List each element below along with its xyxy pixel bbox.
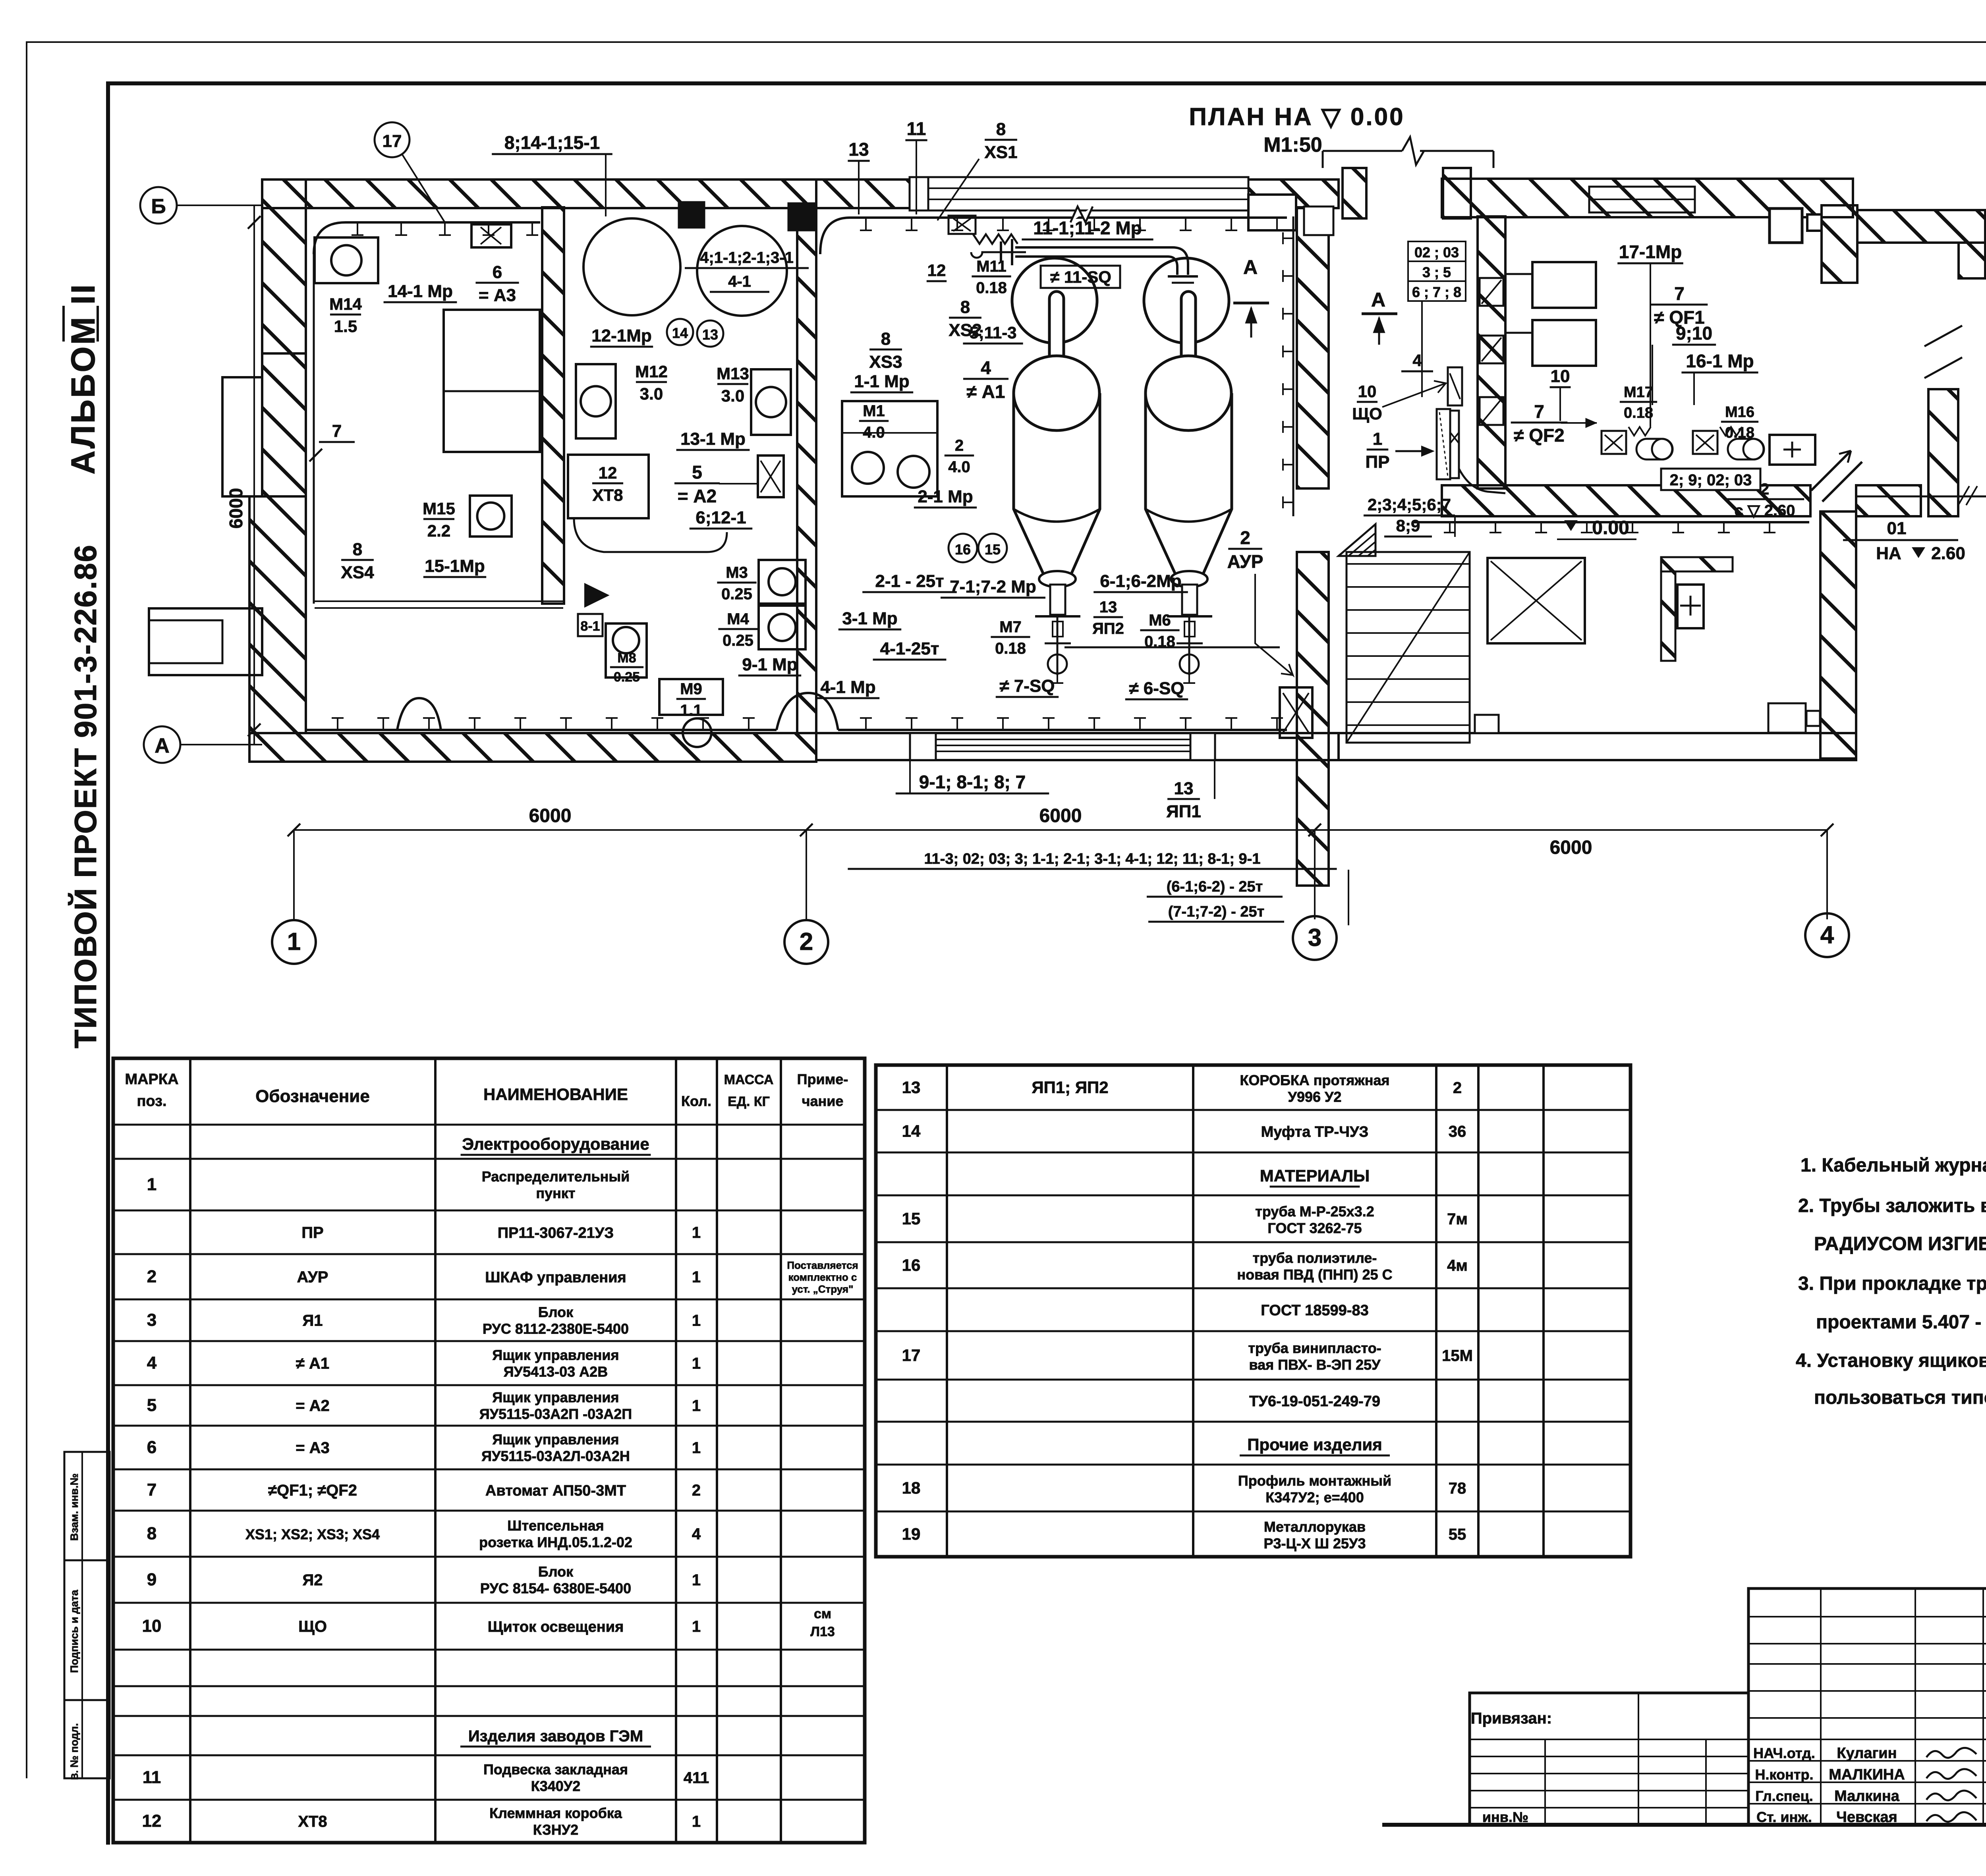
svg-text:4-1: 4-1 xyxy=(728,273,751,290)
svg-text:2: 2 xyxy=(955,437,964,454)
svg-text:16: 16 xyxy=(955,541,971,558)
svg-text:Профиль монтажный: Профиль монтажный xyxy=(1238,1473,1391,1489)
svg-text:3.0: 3.0 xyxy=(640,384,663,403)
svg-text:7: 7 xyxy=(1674,283,1685,304)
svg-text:№ подл.: № подл. xyxy=(68,1723,80,1768)
tray top room1 xyxy=(314,222,540,254)
svg-text:17: 17 xyxy=(383,131,402,151)
svg-text:Блок: Блок xyxy=(538,1304,574,1320)
svg-text:Н.контр.: Н.контр. xyxy=(1755,1766,1814,1783)
svg-text:6: 6 xyxy=(493,262,502,282)
svg-text:≠ 7-SQ: ≠ 7-SQ xyxy=(999,676,1055,696)
svg-text:ШКАФ управления: ШКАФ управления xyxy=(485,1269,626,1286)
svg-text:Взам. инв.№: Взам. инв.№ xyxy=(68,1473,80,1541)
svg-text:Блок: Блок xyxy=(538,1563,574,1580)
svg-text:= А2: = А2 xyxy=(296,1397,330,1415)
silo 1 top circle xyxy=(1012,258,1097,343)
svg-text:7: 7 xyxy=(1534,401,1544,422)
bottom wall rooms 1-2 xyxy=(249,733,816,762)
svg-text:ПР11-3067-21УЗ: ПР11-3067-21УЗ xyxy=(498,1225,614,1241)
top wall NE lower band xyxy=(1857,210,1985,243)
svg-text:МАССА: МАССА xyxy=(724,1072,774,1087)
svg-text:(7-1;7-2) - 25т: (7-1;7-2) - 25т xyxy=(1168,903,1264,920)
svg-text:ПР: ПР xyxy=(1366,452,1390,472)
svg-text:ХТ8: ХТ8 xyxy=(592,486,623,504)
pump M1 group xyxy=(842,401,937,496)
svg-text:М17: М17 xyxy=(1624,384,1653,401)
motor M16 unit xyxy=(1693,431,1717,454)
silo 1 outlet ring xyxy=(1039,571,1076,587)
svg-text:0.00: 0.00 xyxy=(1592,517,1629,538)
svg-text:ЯП1; ЯП2: ЯП1; ЯП2 xyxy=(1032,1078,1108,1097)
svg-text:15: 15 xyxy=(985,541,1001,558)
left dimension 6000 vertical xyxy=(253,205,255,745)
svg-text:8;14-1;15-1: 8;14-1;15-1 xyxy=(504,132,600,153)
svg-text:4-1-25т: 4-1-25т xyxy=(880,639,939,658)
svg-text:с ▽ 2.60: с ▽ 2.60 xyxy=(1734,502,1795,519)
svg-text:15М: 15М xyxy=(1442,1347,1473,1365)
svg-text:М3: М3 xyxy=(726,564,748,581)
valve connection line xyxy=(1064,647,1280,648)
svg-text:4м: 4м xyxy=(1447,1257,1468,1274)
svg-text:Кулагин: Кулагин xyxy=(1837,1745,1897,1762)
svg-text:9-1 Мр: 9-1 Мр xyxy=(742,655,797,674)
svg-text:пользоваться типовым проект: пользоваться типовым проектом 5.407-55. xyxy=(1814,1387,1986,1408)
svg-text:Гл.спец.: Гл.спец. xyxy=(1755,1788,1813,1804)
svg-text:10: 10 xyxy=(142,1616,162,1636)
svg-text:17: 17 xyxy=(902,1346,921,1365)
box ShchO xyxy=(1448,367,1462,405)
svg-text:Муфта ТР-ЧУЗ: Муфта ТР-ЧУЗ xyxy=(1261,1124,1369,1141)
svg-text:2: 2 xyxy=(692,1482,701,1499)
panel PR xyxy=(1437,409,1450,479)
svg-text:2: 2 xyxy=(800,928,813,955)
svg-text:≠ 6-SQ: ≠ 6-SQ xyxy=(1129,679,1184,698)
svg-text:10: 10 xyxy=(1551,367,1570,386)
window channel right room xyxy=(1589,187,1695,212)
svg-text:9: 9 xyxy=(147,1570,156,1589)
cabinet AUR xyxy=(1280,687,1312,738)
circle 17 leader xyxy=(375,122,410,157)
riser tray ticks xyxy=(1283,232,1293,244)
svg-text:Л13: Л13 xyxy=(810,1624,835,1639)
svg-text:Чевская: Чевская xyxy=(1836,1809,1897,1826)
svg-text:М11: М11 xyxy=(976,258,1007,275)
svg-text:1.5: 1.5 xyxy=(334,317,357,336)
svg-text:см: см xyxy=(814,1606,831,1621)
tray left room1 down xyxy=(313,254,315,604)
svg-text:13: 13 xyxy=(848,139,869,160)
pier block axis3 top xyxy=(1248,195,1296,230)
small boxes near east wall xyxy=(1768,703,1806,733)
svg-text:7: 7 xyxy=(147,1480,156,1500)
svg-text:М6: М6 xyxy=(1149,612,1171,629)
grid circle 1 xyxy=(272,920,316,964)
motor M3 box xyxy=(759,560,806,604)
svg-text:труба М-Р-25х3.2: труба М-Р-25х3.2 xyxy=(1255,1203,1374,1220)
svg-text:НАЧ.отд.: НАЧ.отд. xyxy=(1753,1745,1815,1761)
svg-text:2: 2 xyxy=(1240,527,1250,548)
svg-text:пункт: пункт xyxy=(536,1185,575,1201)
svg-text:3 ; 5: 3 ; 5 xyxy=(1422,264,1451,280)
svg-text:РУС 8154- 6380Е-5400: РУС 8154- 6380Е-5400 xyxy=(480,1580,631,1596)
svg-text:Подвеска закладная: Подвеска закладная xyxy=(483,1761,628,1778)
svg-text:ТУ6-19-051-249-79: ТУ6-19-051-249-79 xyxy=(1249,1393,1380,1410)
circle 14 xyxy=(667,319,693,345)
svg-text:поз.: поз. xyxy=(137,1093,166,1110)
svg-text:МАРКА: МАРКА xyxy=(125,1071,178,1088)
svg-text:= А2: = А2 xyxy=(678,486,717,506)
svg-text:розетка ИНД.05.1.2-02: розетка ИНД.05.1.2-02 xyxy=(479,1534,632,1550)
svg-text:Металлорукав: Металлорукав xyxy=(1264,1519,1366,1535)
svg-text:2: 2 xyxy=(1453,1079,1462,1097)
motor M4 box xyxy=(759,606,806,649)
terminal box XT8 xyxy=(568,455,649,518)
svg-text:2; 9; 02; 03: 2; 9; 02; 03 xyxy=(1670,471,1752,489)
section mark A left xyxy=(1233,302,1269,305)
left wall upper xyxy=(262,353,306,496)
svg-text:Щиток освещения: Щиток освещения xyxy=(488,1619,624,1635)
svg-text:ЯП1: ЯП1 xyxy=(1166,802,1201,821)
grid circle 4 xyxy=(1805,913,1849,957)
svg-text:ЯУ5115-03А2Л-03А2Н: ЯУ5115-03А2Л-03А2Н xyxy=(481,1448,630,1464)
svg-text:11-3; 02; 03; 3; 1-1; 2-1; 3-1: 11-3; 02; 03; 3; 1-1; 2-1; 3-1; 4-1; 12;… xyxy=(924,851,1261,867)
silo 2 valve train xyxy=(1188,616,1190,675)
svg-text:комплектно с: комплектно с xyxy=(788,1271,857,1283)
svg-text:12: 12 xyxy=(142,1811,162,1831)
svg-text:ПР: ПР xyxy=(301,1224,323,1241)
svg-text:1: 1 xyxy=(147,1175,156,1194)
svg-text:К347У2; е=400: К347У2; е=400 xyxy=(1265,1489,1364,1505)
svg-text:19: 19 xyxy=(902,1525,921,1543)
svg-text:4;1-1;2-1;3-1: 4;1-1;2-1;3-1 xyxy=(700,249,794,266)
title block extension xyxy=(1470,1693,1748,1825)
svg-text:6-1;6-2Мр: 6-1;6-2Мр xyxy=(1100,571,1181,591)
svg-text:М1: М1 xyxy=(863,402,885,420)
svg-text:16-1 Мр: 16-1 Мр xyxy=(1686,351,1754,371)
svg-text:1: 1 xyxy=(692,1268,701,1286)
svg-text:Я1: Я1 xyxy=(303,1312,323,1330)
svg-text:12: 12 xyxy=(927,261,946,280)
tray right room bottom xyxy=(1414,521,1809,523)
svg-text:12: 12 xyxy=(599,463,617,482)
riser tray along axis3 wall xyxy=(1292,216,1294,516)
level mark 0.00 xyxy=(1564,520,1578,531)
svg-text:Б: Б xyxy=(151,195,166,218)
step pier NE xyxy=(1822,205,1857,283)
svg-text:Прочие изделия: Прочие изделия xyxy=(1247,1435,1382,1454)
top wall right room xyxy=(1442,179,1853,217)
motor M9 xyxy=(659,679,723,715)
svg-text:НА: НА xyxy=(1876,544,1901,563)
svg-text:≠QF1; ≠QF2: ≠QF1; ≠QF2 xyxy=(268,1482,357,1499)
svg-text:МАЛКИНА: МАЛКИНА xyxy=(1829,1766,1905,1783)
specification table 1 xyxy=(113,1058,865,1843)
svg-text:В.: В. xyxy=(70,1770,80,1780)
left wall niche bump xyxy=(222,377,262,496)
right room west wall xyxy=(1478,216,1505,488)
svg-text:4: 4 xyxy=(1820,921,1834,949)
svg-text:5;11-3: 5;11-3 xyxy=(969,323,1016,342)
svg-text:1: 1 xyxy=(692,1439,701,1457)
svg-text:2-1 - 25т: 2-1 - 25т xyxy=(875,571,944,591)
svg-text:6000: 6000 xyxy=(226,488,246,529)
floor channel in bottom wall xyxy=(936,739,1190,740)
label 2 9 02 03 box xyxy=(1661,469,1760,490)
svg-text:= А3: = А3 xyxy=(296,1439,330,1457)
svg-text:17-1Мр: 17-1Мр xyxy=(1619,241,1682,262)
svg-text:4: 4 xyxy=(692,1525,701,1543)
axis B circle xyxy=(140,187,177,224)
circle 13 xyxy=(697,320,723,347)
svg-text:4. Установку ящиков с ру: 4. Установку ящиков с рубильником и АППА… xyxy=(1796,1350,1986,1371)
svg-text:2;3;4;5;6;7: 2;3;4;5;6;7 xyxy=(1368,495,1451,514)
svg-text:18: 18 xyxy=(902,1478,921,1497)
svg-text:0.18: 0.18 xyxy=(976,279,1007,297)
svg-text:2.60: 2.60 xyxy=(1931,544,1965,563)
svg-text:новая ПВД (ПНП) 25 С: новая ПВД (ПНП) 25 С xyxy=(1237,1266,1392,1283)
signatures xyxy=(1926,1748,1976,1758)
pipe between silos xyxy=(1015,257,1177,275)
svg-text:Я2: Я2 xyxy=(303,1571,323,1589)
grid circle 3 xyxy=(1293,916,1337,960)
svg-text:≠ QF2: ≠ QF2 xyxy=(1514,425,1565,446)
svg-text:Штепсельная: Штепсельная xyxy=(507,1517,604,1534)
svg-text:8: 8 xyxy=(353,540,362,559)
tank T2 xyxy=(697,226,787,316)
svg-text:= А3: = А3 xyxy=(479,286,516,305)
silo 2 top circle xyxy=(1144,258,1229,343)
svg-text:Кол.: Кол. xyxy=(681,1093,711,1109)
svg-text:РУС 8112-2380Е-5400: РУС 8112-2380Е-5400 xyxy=(483,1321,629,1337)
left wall lower xyxy=(249,496,306,733)
svg-text:Малкина: Малкина xyxy=(1834,1788,1900,1805)
svg-text:труба полиэтиле-: труба полиэтиле- xyxy=(1253,1250,1377,1266)
svg-text:1: 1 xyxy=(1373,429,1382,449)
svg-text:14-1 Мр: 14-1 Мр xyxy=(388,282,453,301)
svg-text:ГОСТ 18599-83: ГОСТ 18599-83 xyxy=(1261,1302,1368,1319)
wall pier left top corner xyxy=(262,179,306,353)
svg-text:1: 1 xyxy=(692,1397,701,1415)
svg-text:3: 3 xyxy=(1308,924,1321,952)
svg-text:ЯУ5115-03А2П -03А2П: ЯУ5115-03А2П -03А2П xyxy=(479,1406,632,1422)
svg-text:13: 13 xyxy=(1099,598,1117,616)
svg-text:6 ; 7 ; 8: 6 ; 7 ; 8 xyxy=(1412,284,1461,300)
svg-text:0.18: 0.18 xyxy=(1725,425,1754,441)
svg-text:36: 36 xyxy=(1449,1123,1466,1141)
motor M8 xyxy=(606,623,647,677)
floor trench rooms 1-2 xyxy=(315,600,563,602)
svg-text:М4: М4 xyxy=(727,610,749,628)
building right wall xyxy=(1928,389,1958,516)
interior wall W3 axis3 xyxy=(1297,207,1329,488)
svg-text:01: 01 xyxy=(1887,519,1907,538)
svg-text:Клеммная коробка: Клеммная коробка xyxy=(489,1805,622,1821)
svg-text:ХS1; ХS2; ХS3; ХS4: ХS1; ХS2; ХS3; ХS4 xyxy=(245,1526,380,1542)
plus box right room xyxy=(1770,435,1815,465)
svg-text:М7: М7 xyxy=(999,618,1022,636)
junction boxes right room xyxy=(1770,208,1802,243)
svg-text:1-1 Мр: 1-1 Мр xyxy=(854,372,909,391)
svg-text:АУР: АУР xyxy=(1227,551,1263,572)
lower wing south wall xyxy=(1339,733,1820,760)
svg-text:Изделия заводов ГЭМ: Изделия заводов ГЭМ xyxy=(468,1727,643,1745)
bottom dimension line xyxy=(294,829,1827,831)
svg-text:КЗНУ2: КЗНУ2 xyxy=(533,1822,578,1838)
svg-text:АУР: АУР xyxy=(297,1268,328,1286)
svg-text:ХS3: ХS3 xyxy=(869,352,902,372)
cable entry stub far left xyxy=(149,608,262,675)
motor M12 xyxy=(576,364,616,438)
circle 15 xyxy=(978,534,1007,562)
stairwell stairs xyxy=(1347,552,1470,743)
svg-text:8: 8 xyxy=(147,1524,156,1543)
svg-text:1: 1 xyxy=(692,1618,701,1635)
svg-text:16: 16 xyxy=(902,1256,921,1274)
svg-text:4-1 Мр: 4-1 Мр xyxy=(820,677,875,697)
svg-text:ТИПОВОЙ ПРОЕКТ 901-3-226.86: ТИПОВОЙ ПРОЕКТ 901-3-226.86 xyxy=(68,544,103,1048)
svg-text:15-1Мр: 15-1Мр xyxy=(425,556,485,576)
svg-text:13: 13 xyxy=(902,1078,921,1097)
wall top band rooms 1-2 xyxy=(262,179,816,208)
box A2 xyxy=(758,455,784,497)
svg-text:чание: чание xyxy=(802,1093,844,1109)
svg-text:Электрооборудование: Электрооборудование xyxy=(462,1135,649,1153)
svg-text:6: 6 xyxy=(147,1438,156,1457)
svg-text:02 ; 03: 02 ; 03 xyxy=(1414,244,1459,261)
svg-text:Обозначение: Обозначение xyxy=(255,1087,370,1106)
svg-text:ЯП2: ЯП2 xyxy=(1092,620,1124,637)
svg-text:6000: 6000 xyxy=(529,805,572,826)
svg-text:АЛЬБОМ II: АЛЬБОМ II xyxy=(64,283,102,475)
svg-text:1: 1 xyxy=(692,1312,701,1330)
svg-text:0.25: 0.25 xyxy=(721,585,752,603)
margin stamp strip xyxy=(64,1452,110,1778)
svg-text:9-1; 8-1; 8; 7: 9-1; 8-1; 8; 7 xyxy=(919,772,1026,792)
axis A circle xyxy=(144,726,180,763)
svg-text:К340У2: К340У2 xyxy=(531,1778,580,1794)
svg-text:0.25: 0.25 xyxy=(723,632,753,649)
svg-text:8: 8 xyxy=(960,297,970,317)
svg-text:≠ А1: ≠ А1 xyxy=(296,1355,329,1372)
cabinet panel 1 xyxy=(1532,262,1596,308)
svg-text:5: 5 xyxy=(692,462,702,483)
svg-text:78: 78 xyxy=(1449,1480,1466,1497)
svg-text:8: 8 xyxy=(881,329,891,349)
title block main stamp xyxy=(1748,1588,1986,1825)
svg-text:1: 1 xyxy=(692,1813,701,1830)
svg-text:≠ А1: ≠ А1 xyxy=(967,381,1005,402)
label 9-1 8-1 8 7 xyxy=(909,760,911,794)
interior wall W1 xyxy=(542,207,564,604)
svg-text:3: 3 xyxy=(147,1310,156,1330)
svg-text:4.0: 4.0 xyxy=(948,458,970,476)
svg-text:8: 8 xyxy=(996,120,1006,139)
right room bottom wall xyxy=(1442,485,1810,516)
svg-text:М14: М14 xyxy=(329,295,362,313)
motor M17 unit xyxy=(1602,431,1626,454)
bottom wall middle room xyxy=(816,733,1339,760)
svg-text:КОРОБКА протяжная: КОРОБКА протяжная xyxy=(1240,1072,1389,1089)
svg-text:≠ 11-SQ: ≠ 11-SQ xyxy=(1050,268,1111,286)
svg-text:13-1 Мр: 13-1 Мр xyxy=(680,429,746,449)
stair flight triangle xyxy=(1339,524,1376,556)
svg-text:6;12-1: 6;12-1 xyxy=(695,508,746,527)
svg-text:уст. „Струя": уст. „Струя" xyxy=(792,1283,854,1295)
svg-text:А: А xyxy=(1243,256,1258,278)
lower wing east wall xyxy=(1820,511,1856,759)
svg-text:1: 1 xyxy=(287,928,301,955)
silo 2 body xyxy=(1146,393,1232,577)
svg-text:11-1;11-2 Мр: 11-1;11-2 Мр xyxy=(1033,218,1142,238)
pipe valves left xyxy=(949,216,976,234)
crane X box xyxy=(1488,558,1585,643)
junction square W2 top xyxy=(788,203,816,230)
tray top middle room xyxy=(820,218,1287,254)
svg-text:М9: М9 xyxy=(680,680,702,698)
svg-text:6000: 6000 xyxy=(1550,837,1592,858)
svg-text:ЯУ5413-03 А2В: ЯУ5413-03 А2В xyxy=(504,1364,608,1380)
svg-text:ХS4: ХS4 xyxy=(341,563,374,582)
svg-text:А: А xyxy=(1371,289,1385,311)
svg-text:11: 11 xyxy=(143,1768,161,1787)
section mark A lower-left xyxy=(1362,313,1397,315)
svg-text:проектами 5.407 - 63; 5.40: проектами 5.407 - 63; 5.407- 62 . xyxy=(1816,1312,1986,1333)
svg-text:9;10: 9;10 xyxy=(1676,323,1712,344)
vestibule walls top axis3-4 xyxy=(1343,168,1366,218)
svg-text:М1:50: М1:50 xyxy=(1263,133,1322,156)
svg-text:0.18: 0.18 xyxy=(1624,405,1653,421)
svg-text:7: 7 xyxy=(332,421,342,441)
svg-text:Автомат АП50-3МТ: Автомат АП50-3МТ xyxy=(485,1482,626,1499)
svg-text:М15: М15 xyxy=(423,499,455,518)
svg-text:Ящик управления: Ящик управления xyxy=(492,1347,619,1363)
interior wall W2 axis2 xyxy=(797,207,816,733)
svg-text:НАИМЕНОВАНИЕ: НАИМЕНОВАНИЕ xyxy=(483,1085,628,1104)
junction square room2 top xyxy=(679,202,704,228)
svg-text:Поставляется: Поставляется xyxy=(787,1259,858,1271)
svg-text:2.2: 2.2 xyxy=(427,521,450,540)
svg-text:8;9: 8;9 xyxy=(1396,516,1420,535)
svg-text:1.1: 1.1 xyxy=(680,702,702,719)
label 11-SQ box xyxy=(1041,266,1120,288)
svg-text:7-1;7-2 Мр: 7-1;7-2 Мр xyxy=(950,577,1036,596)
svg-text:М16: М16 xyxy=(1725,404,1754,421)
C-wall fragment in wing xyxy=(1661,557,1733,571)
label 02 03 3 5 6 7 8 stack xyxy=(1408,241,1466,301)
silo 1 body xyxy=(1014,393,1100,577)
svg-text:труба винипласто-: труба винипласто- xyxy=(1248,1340,1381,1356)
svg-text:2: 2 xyxy=(147,1267,156,1286)
svg-text:0.18: 0.18 xyxy=(995,640,1026,657)
svg-text:Привязан:: Привязан: xyxy=(1471,1710,1552,1727)
svg-text:4.0: 4.0 xyxy=(863,424,885,441)
svg-text:инв.№: инв.№ xyxy=(1482,1809,1528,1825)
svg-text:7м: 7м xyxy=(1447,1210,1468,1228)
svg-text:ГОСТ 3262-75: ГОСТ 3262-75 xyxy=(1267,1220,1362,1236)
svg-text:2: 2 xyxy=(1760,481,1769,498)
svg-text:У996 У2: У996 У2 xyxy=(1288,1089,1342,1105)
svg-text:12-1Мр: 12-1Мр xyxy=(591,326,652,345)
svg-text:Р3-Ц-Х Ш 25У3: Р3-Ц-Х Ш 25У3 xyxy=(1264,1535,1366,1552)
svg-text:ХТ8: ХТ8 xyxy=(298,1813,327,1830)
equipment platform room 1 xyxy=(444,310,540,452)
svg-text:ЩО: ЩО xyxy=(298,1618,327,1635)
svg-text:ЕД. КГ: ЕД. КГ xyxy=(728,1094,770,1109)
svg-text:10: 10 xyxy=(1358,382,1377,401)
svg-text:8-1: 8-1 xyxy=(580,619,600,634)
wall top band middle room xyxy=(816,179,948,208)
